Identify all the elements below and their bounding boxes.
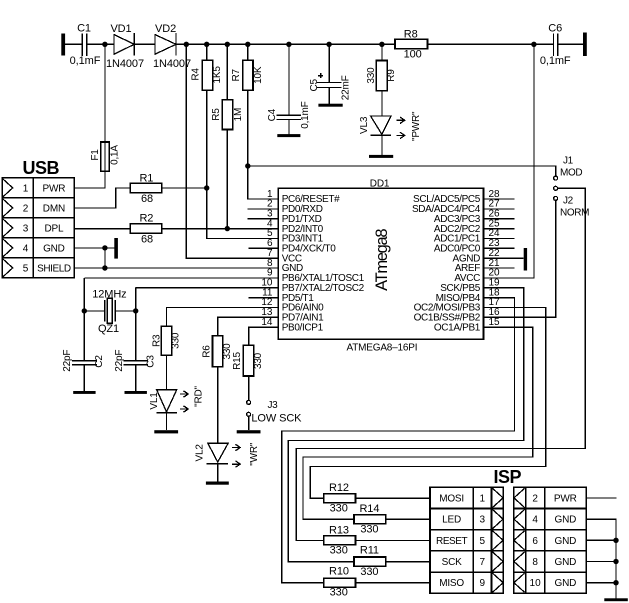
wire J1 lower to pin16 SS# bbox=[484, 200, 556, 317]
diode VD1 bbox=[114, 33, 134, 56]
svg-text:GND: GND bbox=[554, 557, 576, 568]
svg-text:C3: C3 bbox=[146, 355, 157, 368]
node R2-R5col bbox=[225, 226, 230, 231]
svg-text:R8: R8 bbox=[404, 28, 418, 40]
svg-text:MISO: MISO bbox=[439, 578, 464, 589]
capacitor C3 bbox=[135, 311, 137, 391]
wire XTAL1 pin9 bbox=[84, 277, 278, 279]
svg-text:1: 1 bbox=[480, 493, 486, 504]
ground ISP bbox=[604, 598, 628, 601]
svg-text:6: 6 bbox=[532, 536, 538, 547]
pin chevron 2 bbox=[2, 198, 12, 217]
pin stub PD5/T1 pin11 bbox=[249, 297, 279, 299]
svg-text:22pF: 22pF bbox=[114, 350, 125, 372]
capacitor C6 bbox=[553, 34, 557, 57]
svg-text:VL3: VL3 bbox=[359, 116, 370, 134]
pin stub PC0 pin23 bbox=[484, 247, 515, 249]
svg-text:F1: F1 bbox=[90, 149, 101, 161]
connector X1 USB table bbox=[2, 178, 74, 278]
pin stub PC4 pin27 bbox=[484, 208, 515, 210]
svg-text:LOW SCK: LOW SCK bbox=[251, 413, 302, 425]
svg-text:"WR": "WR" bbox=[249, 442, 260, 466]
pin chevron 3 bbox=[2, 218, 12, 237]
ground C2 bbox=[73, 391, 95, 394]
LED VL3 bbox=[371, 116, 392, 155]
svg-text:330: 330 bbox=[366, 67, 377, 84]
svg-text:MOD: MOD bbox=[560, 168, 582, 179]
resistor R1 bbox=[74, 188, 130, 208]
wire ISP GND bus bbox=[586, 519, 616, 598]
svg-text:0,1mF: 0,1mF bbox=[70, 55, 101, 67]
svg-text:8: 8 bbox=[532, 557, 538, 568]
svg-text:VL2: VL2 bbox=[195, 444, 206, 462]
svg-text:7: 7 bbox=[480, 557, 486, 568]
svg-text:GND: GND bbox=[43, 243, 65, 254]
svg-text:R1: R1 bbox=[139, 173, 153, 185]
ground C3 bbox=[125, 391, 147, 394]
svg-text:5: 5 bbox=[23, 263, 29, 274]
svg-text:4: 4 bbox=[23, 243, 29, 254]
svg-text:0,1mF: 0,1mF bbox=[300, 101, 311, 128]
wire XTAL2 pin10 bbox=[136, 287, 279, 289]
resistor R2 bbox=[74, 228, 130, 230]
svg-text:GND: GND bbox=[554, 578, 576, 589]
resistor R14 bbox=[354, 515, 386, 524]
resistor R13 bbox=[324, 536, 356, 545]
svg-text:C4: C4 bbox=[267, 108, 278, 121]
svg-text:OC1A/PB1: OC1A/PB1 bbox=[434, 322, 481, 333]
svg-text:DMN: DMN bbox=[43, 203, 65, 214]
ground C5 bbox=[318, 104, 342, 107]
ground VL2 bbox=[206, 482, 229, 485]
svg-text:ISP: ISP bbox=[493, 467, 521, 487]
node GND bbox=[102, 245, 107, 250]
ground terminal USB bbox=[114, 238, 118, 259]
pin stub PC5 pin28 bbox=[484, 198, 515, 200]
chevron ISP 4 bbox=[514, 510, 525, 529]
resistor R3 bbox=[167, 307, 279, 389]
svg-text:330: 330 bbox=[360, 524, 378, 536]
wire J2 to RESET nest bbox=[296, 188, 585, 540]
svg-text:4: 4 bbox=[532, 515, 538, 526]
svg-text:330: 330 bbox=[360, 566, 378, 578]
capacitor C5 bbox=[328, 44, 330, 104]
chevron ISP 8 bbox=[514, 552, 525, 571]
svg-text:"PWR": "PWR" bbox=[411, 111, 422, 141]
svg-text:R7: R7 bbox=[231, 68, 242, 81]
svg-text:0,1A: 0,1A bbox=[110, 145, 121, 165]
pin stub AREF pin21 bbox=[484, 267, 515, 269]
resistor R6 bbox=[218, 317, 279, 443]
svg-text:C1: C1 bbox=[77, 23, 91, 35]
svg-text:1K5: 1K5 bbox=[212, 66, 223, 84]
capacitor C1 bbox=[82, 34, 86, 57]
ground VL3 bbox=[369, 155, 393, 158]
node ISP GND 10 bbox=[613, 580, 618, 585]
svg-text:68: 68 bbox=[141, 193, 153, 205]
node rail-R7 bbox=[245, 42, 250, 47]
svg-text:9: 9 bbox=[480, 578, 486, 589]
resistor R12 bbox=[324, 494, 356, 503]
svg-text:GND: GND bbox=[554, 536, 576, 547]
svg-text:ATMEGA8–16PI: ATMEGA8–16PI bbox=[347, 343, 418, 354]
svg-text:15: 15 bbox=[489, 317, 501, 328]
svg-text:"RD": "RD" bbox=[194, 385, 205, 406]
svg-text:1N4007: 1N4007 bbox=[153, 58, 191, 70]
fuse F1 bbox=[74, 44, 105, 188]
svg-text:C6: C6 bbox=[548, 23, 562, 35]
node rail-F1 bbox=[102, 42, 107, 47]
svg-text:SHIELD: SHIELD bbox=[37, 263, 71, 274]
chevron ISP 9 bbox=[493, 573, 504, 592]
svg-text:R9: R9 bbox=[386, 69, 397, 82]
pin chevron 4 bbox=[2, 238, 12, 257]
diode VD2 bbox=[155, 33, 176, 56]
svg-text:3: 3 bbox=[23, 223, 29, 234]
svg-text:10K: 10K bbox=[253, 66, 264, 84]
IC DD1 ATmega8 bbox=[278, 188, 483, 339]
resistor R4 bbox=[207, 44, 279, 238]
node R1-R4col bbox=[204, 185, 209, 190]
capacitor C4 bbox=[288, 44, 290, 134]
pin stub PD1/TXD pin3 bbox=[248, 218, 279, 220]
svg-text:R15: R15 bbox=[232, 351, 243, 369]
svg-text:330: 330 bbox=[330, 545, 348, 557]
svg-text:330: 330 bbox=[253, 352, 264, 369]
svg-text:R4: R4 bbox=[191, 68, 202, 81]
svg-text:PWR: PWR bbox=[554, 493, 577, 504]
svg-text:J1: J1 bbox=[563, 156, 574, 167]
svg-text:PWR: PWR bbox=[43, 183, 66, 194]
connector ISP right block bbox=[514, 487, 586, 593]
chevron ISP 6 bbox=[514, 531, 525, 550]
node rail-AVCC bbox=[531, 42, 536, 47]
svg-text:68: 68 bbox=[141, 233, 153, 245]
svg-text:100: 100 bbox=[404, 49, 422, 61]
wire VCC to pin7 bbox=[186, 44, 278, 258]
svg-text:R6: R6 bbox=[202, 345, 213, 358]
node SHIELD bbox=[102, 265, 107, 270]
ground J3 bbox=[237, 430, 261, 433]
svg-text:VD2: VD2 bbox=[155, 23, 176, 35]
svg-text:1N4007: 1N4007 bbox=[106, 58, 144, 70]
pin stub PC2 pin25 bbox=[484, 228, 515, 230]
chevron ISP 10 bbox=[514, 573, 525, 592]
pin stub PC3 pin26 bbox=[484, 218, 515, 220]
svg-text:14: 14 bbox=[261, 317, 273, 328]
resistor R7 bbox=[248, 44, 278, 199]
crystal QZ1 bbox=[84, 278, 135, 311]
LED VL1 bbox=[157, 390, 177, 431]
svg-text:DD1: DD1 bbox=[370, 179, 390, 190]
svg-text:DPL: DPL bbox=[44, 223, 63, 234]
svg-text:22mF: 22mF bbox=[340, 75, 351, 100]
node QZ1 left bbox=[82, 308, 87, 313]
pin stub PC1 pin24 bbox=[484, 237, 515, 239]
node ISP GND 8 bbox=[613, 559, 618, 564]
resistor R8 bbox=[395, 39, 428, 48]
wire ISP PWR bbox=[586, 497, 616, 499]
svg-text:330: 330 bbox=[330, 502, 348, 514]
svg-text:R3: R3 bbox=[152, 334, 163, 347]
svg-text:3: 3 bbox=[480, 515, 486, 526]
svg-text:2: 2 bbox=[23, 203, 29, 214]
resistor R9 bbox=[381, 44, 383, 116]
svg-text:USB: USB bbox=[23, 158, 60, 178]
pin chevron 1 bbox=[2, 178, 12, 197]
node rail-R4 bbox=[204, 42, 209, 47]
resistor R11 bbox=[354, 557, 386, 566]
svg-text:R12: R12 bbox=[329, 482, 349, 494]
svg-text:MOSI: MOSI bbox=[439, 493, 464, 504]
svg-text:J3: J3 bbox=[268, 400, 279, 411]
svg-text:J2: J2 bbox=[563, 196, 574, 207]
wire MOSI pin17 bbox=[310, 307, 545, 498]
svg-text:LED: LED bbox=[442, 515, 461, 526]
wire top rail bbox=[65, 43, 584, 45]
right pin names bbox=[412, 194, 481, 333]
svg-text:PB0/ICP1: PB0/ICP1 bbox=[282, 322, 324, 333]
connector ISP left block bbox=[430, 487, 503, 593]
chevron ISP 7 bbox=[493, 552, 504, 571]
svg-text:VL1: VL1 bbox=[149, 392, 160, 410]
node rail-C5 bbox=[326, 42, 331, 47]
svg-text:QZ1: QZ1 bbox=[98, 323, 119, 335]
chevron ISP 3 bbox=[493, 510, 504, 529]
chevron ISP 5 bbox=[493, 531, 504, 550]
node rail-R9 bbox=[379, 42, 384, 47]
wire SHIELD to chip GND pin8 bbox=[74, 267, 278, 269]
svg-text:0,1mF: 0,1mF bbox=[540, 55, 571, 67]
left pin numbers bbox=[261, 189, 273, 328]
jumper J3 bbox=[247, 400, 251, 404]
ground terminal AGND bbox=[524, 248, 527, 271]
svg-text:10: 10 bbox=[530, 578, 542, 589]
svg-text:2: 2 bbox=[532, 493, 538, 504]
svg-text:R5: R5 bbox=[211, 108, 222, 121]
resistor R15 bbox=[249, 327, 279, 430]
wire AVCC riser bbox=[484, 44, 534, 278]
svg-text:12MHz: 12MHz bbox=[92, 289, 126, 301]
svg-text:GND: GND bbox=[554, 515, 576, 526]
svg-text:R13: R13 bbox=[329, 524, 349, 536]
svg-text:R2: R2 bbox=[139, 213, 153, 225]
right pin numbers bbox=[489, 189, 501, 328]
svg-text:RESET: RESET bbox=[436, 536, 467, 547]
svg-text:1: 1 bbox=[23, 183, 29, 194]
wire AGND pin22 bbox=[484, 257, 524, 259]
LED VL2 bbox=[207, 443, 229, 481]
pin stub PD0/RXD pin2 bbox=[248, 208, 279, 210]
ground VL1 bbox=[154, 430, 178, 433]
svg-text:VD1: VD1 bbox=[110, 23, 131, 35]
power rail terminal left bbox=[61, 34, 65, 56]
svg-text:C5: C5 bbox=[309, 78, 320, 91]
ground C4 bbox=[277, 134, 300, 137]
pin chevron 5 bbox=[2, 258, 12, 277]
svg-text:1M: 1M bbox=[233, 108, 244, 122]
capacitor C2 bbox=[83, 311, 85, 391]
svg-text:ATmega8: ATmega8 bbox=[373, 229, 391, 291]
svg-text:330: 330 bbox=[171, 332, 182, 349]
resistor R10 bbox=[324, 578, 356, 587]
pin stub PD4/XCK/T0 pin6 bbox=[249, 247, 279, 249]
power rail terminal right bbox=[583, 33, 587, 57]
svg-text:R10: R10 bbox=[329, 566, 349, 578]
resistor R5 bbox=[226, 44, 228, 228]
jumper J1 bbox=[554, 176, 558, 180]
wire USB GND bbox=[74, 248, 114, 268]
wire MISO pin18 bbox=[282, 298, 515, 583]
node rail-C4 bbox=[286, 42, 291, 47]
wire SCK pin19 bbox=[288, 288, 524, 562]
svg-text:SCK: SCK bbox=[442, 557, 462, 568]
svg-text:5: 5 bbox=[480, 536, 486, 547]
svg-text:C2: C2 bbox=[94, 355, 105, 368]
node rail-R5 bbox=[225, 42, 230, 47]
node QZ1 right bbox=[133, 308, 138, 313]
left pin names bbox=[282, 194, 365, 333]
chevron ISP 1 bbox=[493, 488, 504, 507]
node ISP GND 6 bbox=[613, 538, 618, 543]
node rail-VCC bbox=[184, 42, 189, 47]
chevron ISP 2 bbox=[514, 488, 525, 507]
svg-text:R11: R11 bbox=[360, 545, 379, 557]
node RESET branch bbox=[245, 163, 250, 168]
wire LED pin15 bbox=[303, 327, 533, 519]
svg-text:330: 330 bbox=[330, 587, 348, 599]
svg-text:R14: R14 bbox=[359, 503, 379, 515]
svg-text:22pF: 22pF bbox=[62, 350, 73, 372]
wire RESET net bbox=[248, 166, 556, 176]
